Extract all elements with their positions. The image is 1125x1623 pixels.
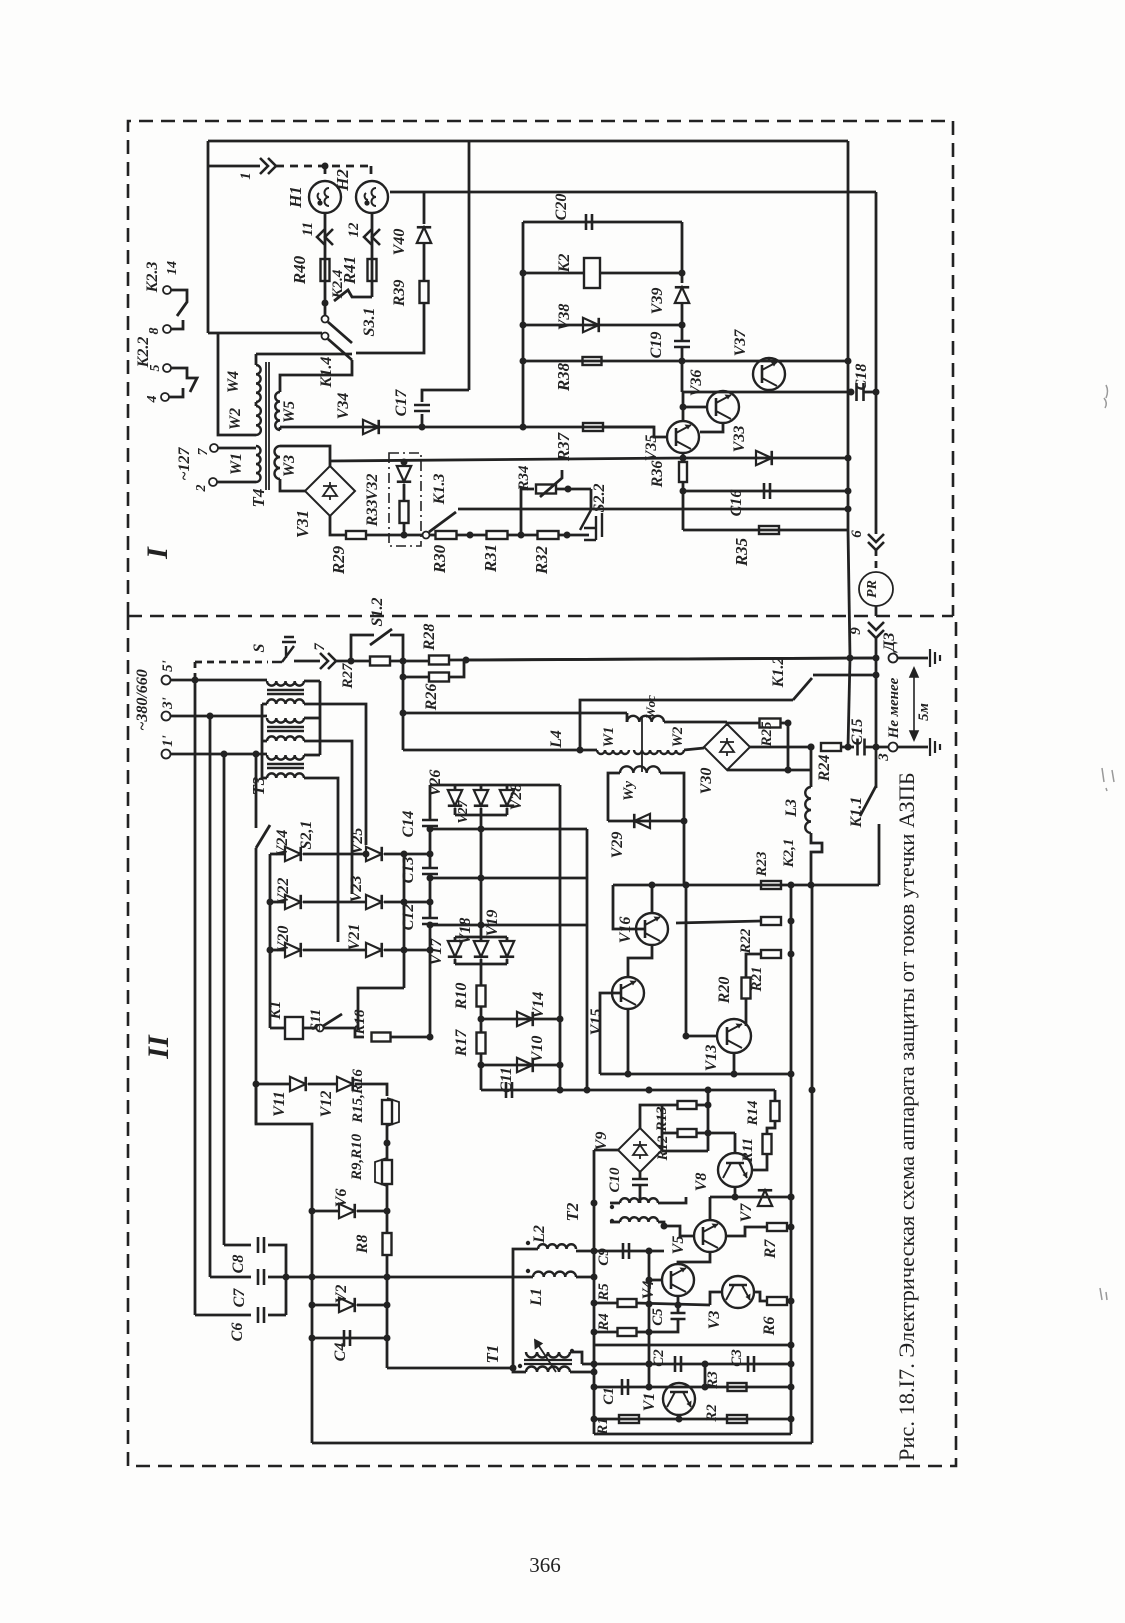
- transistor V37: [753, 358, 785, 390]
- svg-text:V28: V28: [508, 784, 525, 811]
- transformer T4 core second line: [268, 362, 270, 490]
- wire W3 top to bridge top: [280, 446, 330, 466]
- junction V6 right: [384, 1208, 391, 1215]
- wire bus x=523: [522, 222, 525, 427]
- wire C8 feed: [224, 1244, 251, 1247]
- junction D3 x876: [873, 655, 880, 662]
- capacitor C19: [674, 341, 690, 347]
- junction V33 right: [845, 455, 852, 462]
- svg-text:R27: R27: [340, 663, 356, 690]
- svg-text:K1: K1: [267, 1001, 284, 1021]
- wire R38 line: [523, 360, 848, 363]
- svg-text:V37: V37: [732, 329, 749, 357]
- junction y1364 x791: [788, 1361, 795, 1368]
- wire V37 collector to R38 line: [768, 358, 771, 361]
- diode V24: [285, 847, 301, 861]
- wire V11-V12: [308, 1083, 338, 1086]
- svg-text:R39: R39: [391, 280, 408, 308]
- wire C18 right: [864, 391, 876, 394]
- junction S1.2 right: [400, 658, 407, 665]
- junction y1090 x649: [646, 1087, 653, 1094]
- wire arrow9 down: [875, 637, 878, 747]
- svg-text:V10: V10: [529, 1036, 546, 1063]
- rectifier bridge V31: [305, 466, 355, 516]
- junction V11 line: [253, 1081, 260, 1088]
- svg-text:9: 9: [848, 627, 864, 635]
- svg-text:V33: V33: [731, 426, 748, 453]
- wire T3 secondary star C: [262, 777, 267, 780]
- relay coil K2: [584, 258, 600, 288]
- junction K2.1 bottom: [808, 882, 815, 889]
- wire cathode bus x=404: [403, 854, 406, 988]
- svg-text:R7: R7: [762, 1239, 779, 1260]
- svg-text:L3: L3: [783, 799, 800, 818]
- wire V36 collector: [722, 391, 725, 392]
- junction R4 right: [646, 1329, 653, 1336]
- svg-text:C1: C1: [601, 1387, 617, 1405]
- svg-text:366: 366: [529, 1553, 561, 1577]
- resistor R11: [763, 1134, 772, 1154]
- wire V19 bottom: [506, 959, 509, 964]
- svg-text:V17: V17: [428, 938, 445, 966]
- resistor R39: [420, 281, 429, 303]
- wire cap bus C12 down: [429, 924, 432, 1037]
- wire R30-R31: [457, 534, 487, 537]
- ground at terminal 3: [930, 738, 940, 756]
- wire R7 right: [787, 1226, 791, 1229]
- junction row3 x404: [401, 947, 408, 954]
- wire V9 bottom to C10: [639, 1172, 642, 1179]
- wire V12 to resistor chain: [355, 1084, 387, 1096]
- wire long y=509 from K1.3: [458, 508, 848, 511]
- svg-text:8: 8: [147, 328, 162, 335]
- wire R13 right: [697, 1104, 708, 1107]
- connector arrow 1: [260, 158, 276, 174]
- control winding Wu: [620, 766, 660, 773]
- junction R31 right: [518, 532, 525, 539]
- T1 core line1: [524, 1359, 572, 1361]
- wire C9 line: [576, 1250, 664, 1253]
- svg-text:C15: C15: [849, 719, 866, 746]
- svg-text:V20: V20: [275, 926, 292, 953]
- resistor R5: [618, 1299, 637, 1307]
- wire V27 bottom: [480, 808, 483, 815]
- resistor R36: [679, 462, 687, 482]
- svg-text:V19: V19: [484, 910, 501, 937]
- wire V4 emitter: [677, 1296, 680, 1305]
- transformer T1 winding a: [526, 1352, 570, 1358]
- wire row1 right: [384, 853, 430, 856]
- wire bus x=256 lower: [255, 848, 258, 1124]
- svg-text:V40: V40: [391, 229, 408, 256]
- svg-text:S2.2: S2.2: [591, 484, 608, 513]
- junction L1 right: [591, 1274, 598, 1281]
- wire V18 stub: [480, 937, 483, 942]
- wire y=392 collector line: [682, 391, 851, 394]
- T1 polarity dot a: [518, 1364, 522, 1368]
- wire V26 stub: [454, 785, 457, 791]
- wire V3 base: [710, 1292, 722, 1305]
- wire V16 base: [613, 885, 645, 929]
- resistor R17: [477, 1033, 486, 1054]
- wire V1 emitter: [678, 1415, 681, 1419]
- svg-text:R9,R10: R9,R10: [349, 1133, 365, 1181]
- wire dashed S riser: [194, 662, 197, 680]
- resistor R41: [368, 259, 377, 281]
- scan artifact right edge 1: [1104, 385, 1108, 408]
- ground at D3: [930, 649, 940, 667]
- wire V38 line: [523, 324, 682, 327]
- wire arrow to R27: [335, 660, 370, 663]
- svg-text:L4: L4: [548, 730, 565, 749]
- wire R29 to thermal box: [366, 534, 404, 537]
- svg-text:V36: V36: [688, 370, 705, 397]
- junction V10 left: [478, 1062, 485, 1069]
- svg-text:K2.3: K2.3: [144, 262, 161, 294]
- svg-text:W2: W2: [670, 726, 686, 747]
- wire T1 winding a right: [570, 1352, 582, 1364]
- junction cross2 x430: [427, 875, 434, 882]
- wire anode bus x=270: [269, 854, 272, 1028]
- svg-text:5': 5': [160, 660, 176, 672]
- resistor R30: [436, 531, 457, 539]
- wire V15 emitter: [627, 1009, 630, 1074]
- divider dashed line between sections: [128, 615, 953, 618]
- wire R37 to V35 base: [603, 427, 667, 437]
- transformer T3 secondary C: [267, 773, 304, 778]
- diode V2: [339, 1298, 355, 1312]
- wire y=885 bus: [613, 884, 811, 887]
- wire V37 emitter: [768, 390, 771, 392]
- wire R31-R32: [508, 534, 538, 537]
- transformer T3 primary A: [267, 681, 304, 686]
- capacitor C18: [857, 383, 864, 401]
- wire V28 bottom: [506, 808, 509, 815]
- svg-text:C12: C12: [400, 904, 417, 931]
- svg-text:V8: V8: [693, 1173, 710, 1192]
- wire K1.1 lower: [878, 824, 881, 885]
- junction cross2 x481: [478, 875, 485, 882]
- sensor winding W2: [660, 750, 684, 754]
- diode V6: [339, 1204, 355, 1218]
- junction V6 left: [309, 1208, 316, 1215]
- svg-text:V18: V18: [457, 918, 474, 945]
- wire R5 line: [594, 1302, 618, 1305]
- junction y1364 x705: [702, 1361, 709, 1368]
- junction T1b right: [591, 1369, 598, 1376]
- junction T2b: [661, 1223, 668, 1230]
- wire V4 base: [649, 1279, 662, 1282]
- connector arrow 9: [868, 622, 884, 638]
- wire bridge right to R24: [750, 746, 811, 749]
- junction V4 base: [646, 1277, 653, 1284]
- svg-text:V21: V21: [346, 924, 363, 951]
- junction V36 base: [680, 404, 687, 411]
- wire y=1074: [600, 1073, 791, 1076]
- svg-text:V7: V7: [738, 1203, 755, 1223]
- contact K1.1 blade: [860, 786, 876, 816]
- capacitor C6: [258, 1307, 264, 1323]
- capacitor C9: [623, 1243, 629, 1259]
- wire y=354 from W4: [256, 353, 352, 356]
- svg-text:V32: V32: [364, 474, 381, 501]
- connector arrow 12: [364, 229, 380, 245]
- wire S2.2 riser: [590, 489, 593, 510]
- transistor V13: [717, 1019, 751, 1053]
- switch S2.2: [580, 510, 602, 540]
- svg-text:V23: V23: [348, 876, 365, 903]
- resistor R29: [346, 531, 366, 539]
- junction C15 right: [873, 744, 880, 751]
- wire R14 to R11: [767, 1121, 775, 1134]
- wire x=876 to arrow 6: [875, 392, 878, 534]
- wire K2 right: [600, 272, 682, 275]
- wire bus x=850 down to C15: [848, 658, 850, 747]
- wire terminal 3 to ground: [897, 746, 928, 749]
- svg-text:V29: V29: [609, 832, 626, 859]
- contact circle K1.4: [322, 333, 329, 340]
- T3 core A line1: [267, 689, 304, 691]
- wire R18 right: [391, 1036, 430, 1039]
- wire W2 bottom return: [218, 333, 256, 435]
- wire y=1345 inner top: [594, 1344, 791, 1347]
- svg-text:R37: R37: [554, 431, 573, 462]
- wire R39 bottom return: [356, 303, 424, 353]
- transistor V35: [667, 421, 699, 453]
- wire dashed to lamps: [276, 165, 371, 168]
- wire 3' line: [171, 715, 267, 718]
- wire cap bus C14-C13: [429, 826, 432, 868]
- wire T3 secondary star bus: [261, 704, 264, 778]
- junction row1 x366: [363, 851, 370, 858]
- resistor R6: [767, 1297, 787, 1305]
- wire V14 line: [481, 1018, 560, 1021]
- wire V35 emitter: [682, 453, 685, 458]
- contact K2.1: [811, 833, 822, 885]
- wire D3 to ground: [897, 657, 928, 660]
- resistor R31: [487, 531, 508, 539]
- L1 polarity dot: [526, 1269, 530, 1273]
- wire R12 right: [697, 1132, 735, 1135]
- wire lamp H2 down: [371, 213, 374, 297]
- wire V36 base: [683, 406, 707, 409]
- svg-text:R4: R4: [596, 1313, 612, 1332]
- wire R6 right: [787, 1300, 791, 1303]
- wire T2b left stub: [610, 1221, 620, 1224]
- svg-text:2: 2: [194, 485, 209, 493]
- resistor R25: [760, 719, 781, 728]
- wire cross y=878: [430, 877, 587, 880]
- wire V26 bottom: [454, 808, 457, 815]
- wire K1.2 link: [813, 674, 876, 677]
- wire V13 base: [686, 1035, 717, 1038]
- diode V17: [448, 941, 462, 957]
- wire bus x=682 lower: [681, 361, 684, 392]
- wire 1' line: [171, 753, 267, 756]
- junction R30 R31: [467, 532, 474, 539]
- wire trio bottom bracket: [455, 814, 507, 817]
- transformer T3 secondary B: [267, 736, 304, 741]
- svg-text:Рис. 18.I7. Электрическая схем: Рис. 18.I7. Электрическая схема аппарата…: [894, 772, 919, 1461]
- contact K2.2 wiring: [171, 368, 197, 392]
- svg-text:V35: V35: [643, 435, 660, 462]
- wire bus x=560: [559, 785, 562, 1090]
- svg-text:V24: V24: [274, 830, 291, 857]
- wire R10 to junction: [480, 1007, 483, 1032]
- wire Woc left riser: [626, 713, 629, 722]
- wire dashed down to lamp H1: [324, 166, 327, 181]
- diode V27: [474, 790, 488, 806]
- wire V40 to R39: [423, 243, 426, 281]
- page frame: dashed border of section I box: [128, 121, 953, 616]
- wire C7 right: [268, 1276, 513, 1279]
- svg-text:C7: C7: [231, 1288, 248, 1308]
- svg-text:V27: V27: [456, 799, 471, 823]
- resistor R10 parallel loop: [375, 1158, 387, 1186]
- svg-text:R35: R35: [732, 537, 751, 567]
- T1 adjust arrow: [535, 1340, 556, 1372]
- wire bus x=686: [685, 885, 688, 1036]
- svg-text:C19: C19: [648, 332, 665, 359]
- wire cathode bus to S1.1: [358, 988, 404, 1030]
- junction y1364 x649: [646, 1361, 653, 1368]
- inductor L1: [533, 1272, 576, 1277]
- wire phase row V20: [270, 949, 285, 952]
- svg-text:R25: R25: [759, 721, 775, 748]
- junction y1345 x791: [788, 1342, 795, 1349]
- junction C11 x587: [584, 1087, 591, 1094]
- junction y885 x686: [683, 882, 690, 889]
- svg-text:R20: R20: [716, 977, 733, 1005]
- rectifier bridge V30: [704, 724, 750, 770]
- transformer T2 winding b: [620, 1217, 658, 1222]
- resistor R8: [383, 1233, 392, 1255]
- svg-text:V11: V11: [271, 1091, 288, 1117]
- capacitor C20: [586, 214, 592, 230]
- resistor R12: [678, 1129, 697, 1137]
- wire R20 to V13: [745, 999, 748, 1026]
- junction R40 bottom: [322, 300, 329, 307]
- wire Woc right to R25: [664, 721, 727, 724]
- svg-text:14: 14: [165, 261, 180, 275]
- junction above C19: [679, 322, 686, 329]
- switch S2.1 blade: [256, 825, 270, 848]
- connector arrow 7: [320, 653, 336, 669]
- junction C9 x594: [591, 1248, 598, 1255]
- wire x=469 drop: [468, 141, 471, 390]
- wire y=1419 line: [594, 1418, 791, 1421]
- contact K2.3 wiring: [171, 290, 187, 316]
- wire row V22-V23: [303, 901, 366, 904]
- page frame: dashed border of section II box: [128, 616, 956, 1466]
- svg-text:V12: V12: [318, 1091, 335, 1118]
- diode V12: [337, 1077, 353, 1091]
- inductor L2: [538, 1244, 576, 1249]
- junction R13 right: [705, 1102, 712, 1109]
- wire bus x=312: [311, 1211, 314, 1443]
- svg-text:C6: C6: [229, 1323, 246, 1342]
- svg-text:C16: C16: [728, 490, 745, 517]
- dash-dot box around V32 R33: [389, 453, 421, 546]
- T3 core B line1: [267, 726, 304, 728]
- junction 1' bus b: [253, 751, 260, 758]
- svg-text:II: II: [142, 1034, 175, 1060]
- junction K2 right: [679, 270, 686, 277]
- switch S1.2 bypass right: [390, 635, 403, 661]
- svg-text:V3: V3: [706, 1311, 723, 1330]
- contact K2.4: [334, 290, 372, 301]
- resistor R32: [538, 531, 559, 539]
- svg-text:C20: C20: [553, 194, 570, 221]
- junction y1074 x628: [625, 1071, 632, 1078]
- scan artifact right edge 2: [1102, 768, 1114, 791]
- svg-text:C4: C4: [332, 1343, 349, 1362]
- contact K2.2 lower stub: [169, 388, 183, 397]
- wire D3 line: [466, 658, 876, 660]
- wire bus x=848 into section II: [848, 530, 850, 658]
- wire V2 line: [312, 1304, 340, 1307]
- wire PR to border: [875, 606, 878, 616]
- resistor R18: [372, 1033, 391, 1042]
- svg-text:ДЗ: ДЗ: [881, 632, 898, 653]
- junction 1' bus a: [221, 751, 228, 758]
- junction row1 cap bus: [427, 851, 434, 858]
- diode V26: [448, 790, 462, 806]
- junction K2 line left: [520, 270, 527, 277]
- wire row V24-V25: [303, 853, 366, 856]
- wire R32 to S2.2: [559, 534, 589, 537]
- T1 polarity dot b: [570, 1349, 574, 1353]
- svg-text:6: 6: [849, 530, 865, 538]
- wire V40 branch top: [423, 192, 426, 224]
- wire C6 feed: [195, 1314, 251, 1317]
- svg-text:R23: R23: [754, 851, 770, 878]
- svg-text:K1.4: K1.4: [318, 357, 335, 389]
- wire bus x=791 lower: [790, 1074, 793, 1434]
- wire T1 winding b left: [513, 1368, 526, 1372]
- transformer T4 core: [265, 362, 267, 490]
- wire x708: [707, 1090, 710, 1151]
- inductor L4: [597, 750, 629, 754]
- wire C10 to T2: [639, 1185, 642, 1203]
- svg-text:K1.2: K1.2: [770, 657, 787, 689]
- wire cross y=829: [430, 828, 587, 831]
- svg-text:K2.4: K2.4: [330, 269, 346, 299]
- svg-text:H1: H1: [286, 186, 305, 209]
- wire row2 right: [384, 901, 430, 904]
- junction R34 right: [565, 486, 572, 493]
- wire W2 to bridge: [684, 748, 704, 750]
- svg-text:R36: R36: [649, 461, 666, 489]
- wire V19 stub: [506, 937, 509, 942]
- junction at lamp H1 top: [322, 163, 329, 170]
- wire V18 bottom: [480, 959, 483, 964]
- T3 core C line1: [267, 763, 304, 765]
- svg-text:V22: V22: [275, 878, 292, 905]
- resistor pair R9 R10: [382, 1160, 392, 1184]
- wire lamp H1 down: [324, 213, 327, 303]
- terminal 2: [209, 478, 217, 486]
- wire lamp line y=192: [390, 191, 876, 194]
- junction R38 left: [520, 358, 527, 365]
- wire x705 link: [704, 1364, 707, 1387]
- junction V13 base: [683, 1033, 690, 1040]
- svg-text:C13: C13: [400, 857, 417, 884]
- svg-text:L1: L1: [528, 1288, 545, 1307]
- wire 5' line: [171, 679, 267, 682]
- svg-text:R33: R33: [364, 500, 381, 528]
- wire trio top bracket: [430, 784, 560, 787]
